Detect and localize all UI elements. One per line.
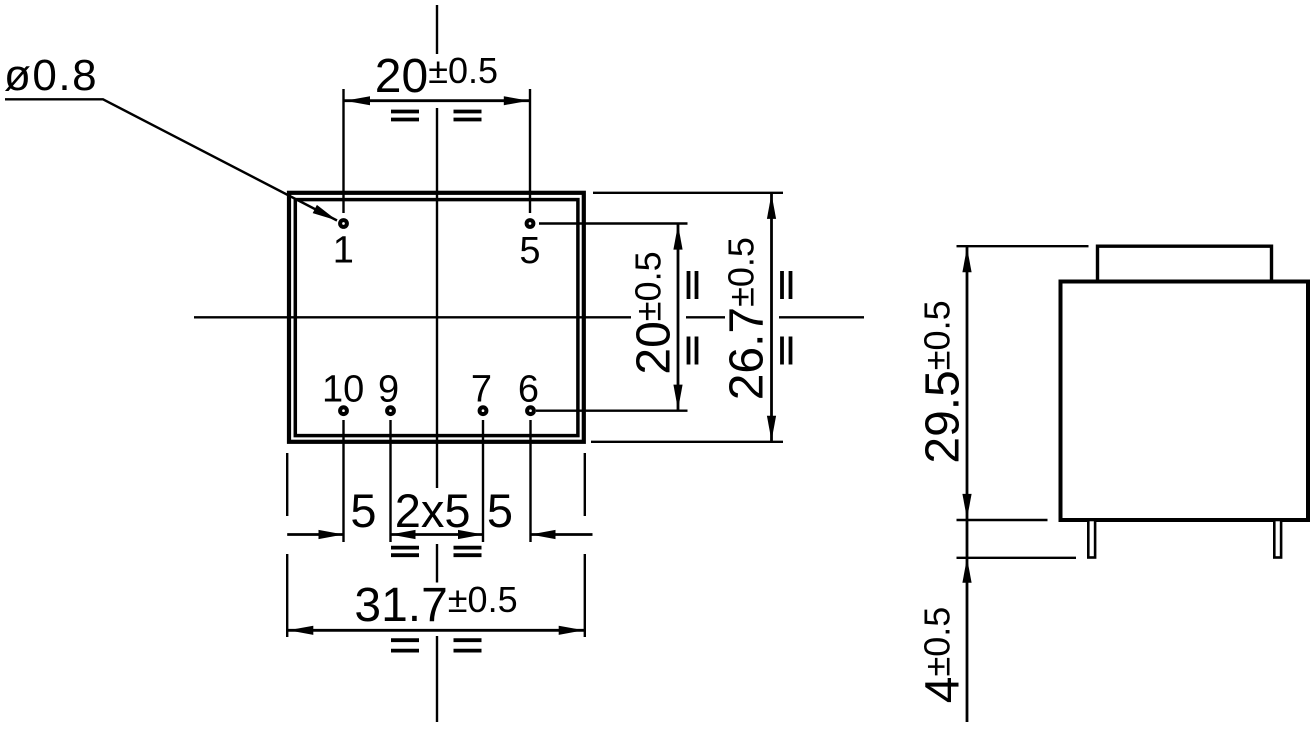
extension line left edge (lower part) — [286, 554, 288, 637]
pin 10 pad — [338, 405, 349, 416]
pin 5 pad — [525, 218, 536, 229]
dimension line 2x5 segment — [391, 533, 484, 536]
arrow left of 31.7 — [288, 626, 313, 635]
arrow bottom of 20 right — [673, 385, 682, 410]
dimension line 20 right — [677, 224, 680, 411]
pin 9 pad — [385, 405, 396, 416]
arrow top of 20 right — [673, 225, 682, 250]
symmetry mark = top right — [454, 112, 482, 120]
centerline horizontal (right segment) — [779, 316, 864, 318]
extension line right edge (lower part) — [584, 554, 586, 637]
svg-text:9: 9 — [378, 368, 399, 410]
pin 6 pad — [525, 405, 536, 416]
extension line below pin 7 — [482, 420, 484, 542]
extension line below pin 10 — [342, 420, 344, 542]
centerline vertical (top segment) — [436, 5, 438, 54]
extension line right of pin 5 — [539, 222, 688, 224]
extension line left edge (upper part) — [286, 453, 288, 516]
leader Ø0.8 arrowhead — [313, 205, 337, 221]
symmetry mark = right-20 lower — [689, 337, 697, 365]
dimension line 20 top — [344, 99, 531, 102]
symmetry mark = mid left — [391, 548, 419, 556]
symmetry mark = bottom left — [391, 640, 419, 650]
symmetry mark = right-20 upper — [689, 271, 697, 299]
dimension line 29.5 and 4 — [966, 246, 969, 722]
extension line rect bottom right — [591, 441, 783, 443]
pin 1 pad — [338, 218, 349, 229]
svg-text:1: 1 — [333, 229, 354, 271]
svg-text:7: 7 — [471, 368, 492, 410]
arrow bottom of 26.7 — [767, 416, 776, 441]
extension line pin bottom — [957, 557, 1077, 559]
arrow bottom of 29.5 — [962, 494, 971, 519]
symmetry mark = right-26.7 lower — [782, 337, 791, 365]
arrow top of 26.7 — [767, 194, 776, 219]
symmetry mark = bottom right — [454, 640, 482, 650]
extension line rect top right — [593, 192, 783, 194]
arrow at pin10 line — [319, 530, 344, 539]
extension line below pin 6 — [529, 420, 531, 542]
arrow left of 20 top — [345, 96, 370, 105]
centerline horizontal (left segment) — [194, 316, 631, 318]
outline: side view body — [1061, 282, 1309, 521]
pin 7 pad — [478, 405, 489, 416]
arrow top of 29.5 — [962, 247, 971, 272]
centerline horizontal (middle segment) — [686, 316, 725, 318]
arrow up at pin bottom (4 dim) — [962, 558, 971, 583]
symmetry mark = mid right — [454, 548, 482, 556]
svg-text:2x5: 2x5 — [395, 484, 471, 537]
outline: case inner rectangle — [295, 200, 578, 436]
centerline vertical (segment below 2x5 dim) — [436, 544, 438, 583]
dimension line 5 left segment — [287, 533, 343, 536]
extension line body bottom — [957, 519, 1048, 521]
symmetry mark = top left — [391, 112, 419, 120]
outline: side view top cap — [1098, 246, 1272, 281]
centerline vertical (main segment) — [436, 108, 438, 488]
extension line right edge (upper part) — [584, 453, 586, 516]
arrow at pin6 line — [531, 530, 556, 539]
extension line above pin 5 — [529, 89, 531, 213]
arrow right of 31.7 — [559, 626, 584, 635]
side view right pin — [1274, 520, 1281, 558]
arrow at pin7 line — [458, 530, 483, 539]
svg-text:5: 5 — [350, 484, 376, 537]
side view left pin — [1088, 520, 1095, 558]
extension line cap top — [957, 245, 1089, 247]
svg-text:ø0.8: ø0.8 — [4, 51, 98, 100]
extension line right of pin 6 — [536, 410, 688, 412]
extension line above pin 1 — [342, 89, 344, 213]
arrow right of 20 top — [504, 96, 529, 105]
outline: case outer rectangle — [289, 193, 584, 442]
dimension line 5 right segment — [531, 533, 593, 536]
symmetry mark = right-26.7 upper — [782, 271, 791, 299]
leader Ø0.8 line — [5, 99, 337, 220]
svg-text:5: 5 — [487, 484, 513, 537]
arrow at pin9 line — [391, 530, 416, 539]
svg-text:5: 5 — [519, 230, 540, 272]
svg-text:6: 6 — [518, 368, 539, 410]
extension line below pin 9 — [389, 420, 391, 542]
dimension line 31.7 — [287, 629, 585, 632]
svg-text:10: 10 — [322, 368, 364, 410]
centerline vertical (bottom segment) — [436, 636, 438, 722]
dimension line 26.7 — [770, 193, 773, 442]
